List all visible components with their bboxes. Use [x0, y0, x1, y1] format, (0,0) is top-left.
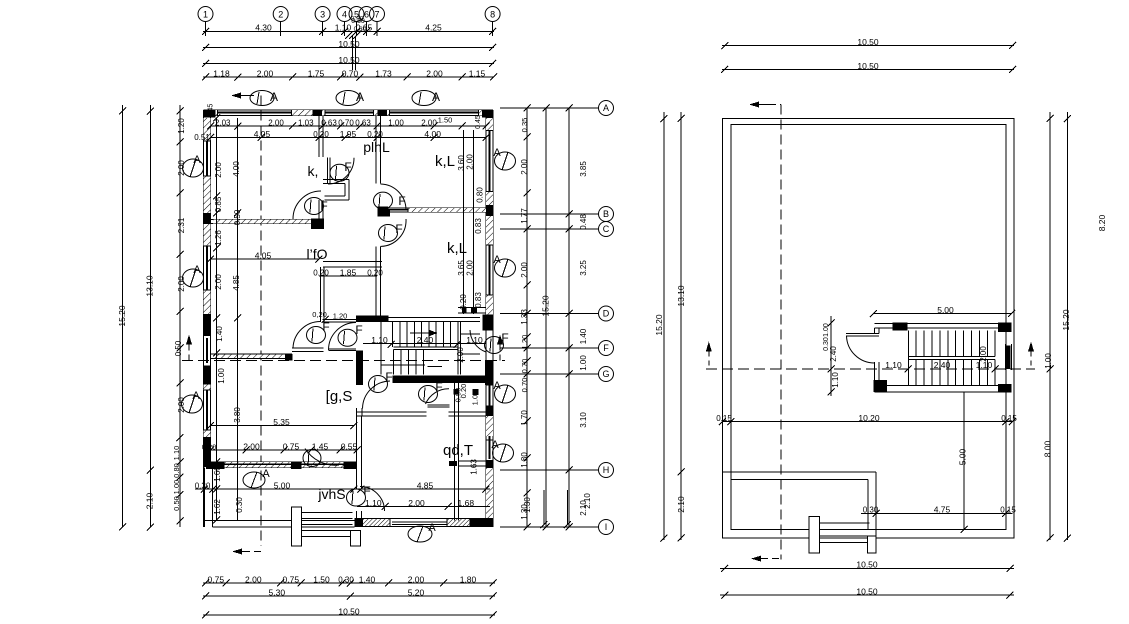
- svg-text:1.10: 1.10: [831, 372, 840, 388]
- svg-text:0.30: 0.30: [863, 506, 879, 515]
- svg-text:1.60: 1.60: [213, 466, 222, 482]
- svg-text:3.85: 3.85: [579, 161, 588, 177]
- svg-text:2.00: 2.00: [520, 262, 529, 278]
- svg-text:8.20: 8.20: [1097, 214, 1107, 231]
- window marker oval A veranda: [243, 472, 265, 488]
- window marker oval A bottom: [408, 526, 432, 542]
- dim line 0.30 5.00 4.85 y489: [195, 488, 490, 490]
- section arrow top left of plan: [231, 93, 241, 99]
- door tag F4: [379, 225, 398, 242]
- window marker oval A right 1: [495, 152, 516, 170]
- right plan stair treads lower flight: [908, 359, 995, 385]
- svg-text:1.18: 1.18: [213, 68, 230, 78]
- svg-text:2.00: 2.00: [408, 498, 425, 508]
- svg-text:0.90: 0.90: [454, 388, 463, 403]
- svg-text:0.75: 0.75: [283, 574, 300, 584]
- svg-text:4: 4: [342, 10, 347, 20]
- wall I horizontal y414 qd,T top: [357, 412, 427, 416]
- section arrow bottom left plan: [232, 549, 242, 555]
- svg-text:0.75: 0.75: [283, 441, 300, 451]
- left plan bottom exterior wall with hatching: [355, 519, 493, 527]
- svg-text:4.25: 4.25: [425, 23, 442, 33]
- right grid chain dim line x569: [568, 108, 570, 527]
- svg-text:2.10: 2.10: [583, 493, 592, 509]
- svg-text:1.73: 1.73: [375, 68, 392, 78]
- svg-text:4.00: 4.00: [232, 161, 241, 177]
- svg-text:F: F: [322, 320, 329, 334]
- svg-text:0.70: 0.70: [342, 68, 359, 78]
- right plan stair left stringer: [907, 331, 909, 386]
- svg-text:1.15: 1.15: [469, 68, 486, 78]
- left wall window glazing lines: [206, 141, 208, 430]
- svg-text:3.25: 3.25: [579, 260, 588, 276]
- svg-text:1.00: 1.00: [471, 391, 480, 406]
- right plan stair treads upper flight: [908, 331, 995, 357]
- bathroom bottom wall y264: [323, 261, 382, 266]
- svg-text:1: 1: [203, 10, 208, 20]
- svg-text:10.50: 10.50: [857, 37, 879, 47]
- svg-text:2.31: 2.31: [177, 217, 186, 233]
- svg-text:2.10: 2.10: [676, 496, 686, 513]
- svg-text:[g,S: [g,S: [326, 388, 353, 405]
- svg-text:2.40: 2.40: [934, 360, 951, 370]
- stair upper flight treads: [393, 321, 458, 347]
- stair inner dim line 1.10 2.40 1.10: [363, 342, 486, 344]
- right plan stair door leaf and arc: [846, 333, 879, 336]
- svg-text:0.20: 0.20: [367, 130, 383, 139]
- svg-text:0.83: 0.83: [474, 292, 483, 308]
- k room bottom wall y310 with window: [458, 308, 486, 314]
- svg-text:1.80: 1.80: [520, 452, 529, 468]
- left outer dim line 15.20: [122, 105, 124, 527]
- svg-text:1.10: 1.10: [976, 360, 993, 370]
- door arc G1: [293, 321, 321, 348]
- svg-text:3: 3: [320, 10, 325, 20]
- svg-text:0.45: 0.45: [475, 115, 482, 129]
- svg-text:0.30: 0.30: [338, 575, 354, 584]
- svg-text:1.63: 1.63: [470, 459, 479, 475]
- svg-text:1.50: 1.50: [438, 116, 453, 125]
- svg-text:10.50: 10.50: [338, 55, 360, 65]
- svg-text:0.20: 0.20: [313, 268, 329, 277]
- svg-text:2.00: 2.00: [214, 274, 223, 290]
- svg-text:1.40: 1.40: [215, 326, 224, 342]
- right plan section arrow bottom: [751, 556, 761, 562]
- svg-text:1.10: 1.10: [371, 335, 388, 345]
- wall H vertical x359 below stair: [356, 375, 363, 385]
- svg-text:5.30: 5.30: [269, 587, 286, 597]
- svg-text:A: A: [493, 254, 501, 266]
- svg-text:0,20: 0,20: [312, 310, 327, 319]
- svg-text:1.85: 1.85: [340, 267, 357, 277]
- stair bottom thick wall: [393, 375, 494, 383]
- right plan section dashed horizontal: [706, 368, 1035, 370]
- interior vertical dim line x237: [237, 118, 239, 520]
- stair landing wall thin continuation: [389, 318, 480, 322]
- stair mid landing lines: [393, 347, 458, 349]
- svg-text:2.00: 2.00: [466, 154, 475, 170]
- section arrow left end: [186, 335, 192, 345]
- svg-text:H: H: [603, 465, 610, 475]
- interior dim line y137: [211, 137, 487, 139]
- right plan bottom dim 10.50 row 2: [720, 594, 1014, 596]
- svg-text:A: A: [356, 90, 364, 104]
- wall H segment below door D7: [356, 408, 362, 416]
- wall W5 vertical x322: [321, 267, 325, 322]
- svg-text:1.00: 1.00: [823, 323, 830, 337]
- svg-text:4.00: 4.00: [424, 129, 441, 139]
- svg-text:A: A: [428, 522, 436, 534]
- door D1 leaf and arc plhL to room k: [327, 158, 330, 184]
- top dim row 2 total 10.50: [203, 47, 494, 49]
- svg-text:10.50: 10.50: [338, 606, 360, 616]
- svg-text:A: A: [493, 380, 501, 392]
- right plan terrace outline lower left: [722, 472, 876, 480]
- svg-text:15.20: 15.20: [654, 314, 664, 336]
- svg-text:2.00: 2.00: [268, 118, 284, 127]
- svg-text:0.70: 0.70: [520, 378, 529, 393]
- svg-text:1.68: 1.68: [458, 498, 475, 508]
- right plan vertical dim 5.00: [963, 392, 965, 529]
- svg-text:A: A: [603, 103, 609, 113]
- svg-text:0.35: 0.35: [520, 118, 529, 133]
- svg-text:2.40: 2.40: [829, 346, 838, 362]
- bottom dim chain row: [203, 582, 495, 584]
- veranda boundary bottom left: [205, 468, 355, 528]
- door tag F3: [374, 192, 393, 209]
- window marker oval A left 1: [183, 159, 204, 177]
- svg-text:15.20: 15.20: [1061, 309, 1071, 331]
- svg-text:10.20: 10.20: [858, 413, 880, 423]
- svg-text:0.50: 0.50: [174, 340, 183, 356]
- svg-text:0.20: 0.20: [313, 130, 329, 139]
- right plan terrace inner lines: [730, 480, 732, 530]
- svg-text:A: A: [193, 154, 201, 166]
- right plan inner wall rectangle: [731, 124, 1006, 529]
- svg-text:0.63: 0.63: [355, 118, 371, 127]
- section arrow right end: [497, 335, 503, 345]
- closet box in bathroom: [323, 180, 349, 201]
- svg-text:10.50: 10.50: [857, 61, 879, 71]
- left chain dim line x180: [179, 105, 181, 527]
- small black square right strip: [472, 389, 478, 395]
- svg-text:8.00: 8.00: [1043, 440, 1053, 457]
- black block at W4/W2 junction: [378, 210, 390, 217]
- right plan dim 5.00 above stair: [873, 313, 1011, 315]
- svg-text:2.00: 2.00: [421, 118, 437, 127]
- stair lower flight treads: [393, 350, 423, 375]
- svg-text:1.45: 1.45: [312, 441, 329, 451]
- wall K vertical x456 qd,T right: [454, 383, 458, 521]
- svg-text:A: A: [192, 390, 200, 402]
- left plan left exterior wall: [204, 110, 211, 527]
- svg-text:A: A: [262, 468, 270, 480]
- svg-text:0.63: 0.63: [321, 118, 337, 127]
- svg-text:13.10: 13.10: [145, 275, 155, 297]
- wall J window glazing: [225, 463, 291, 465]
- svg-text:k,: k,: [308, 163, 319, 179]
- left wall hatch pieces: [204, 118, 211, 141]
- svg-text:2.00: 2.00: [426, 68, 443, 78]
- svg-text:0.20: 0.20: [459, 294, 468, 310]
- svg-text:0.51: 0.51: [194, 133, 210, 142]
- svg-text:2.00: 2.00: [243, 441, 260, 451]
- svg-text:2.00: 2.00: [520, 159, 529, 175]
- svg-text:0.50: 0.50: [172, 496, 181, 511]
- double door leafs at [g,S entry: [292, 348, 356, 352]
- wall W3 lower segment: [319, 200, 323, 219]
- svg-text:8: 8: [490, 10, 495, 20]
- svg-text:0.55: 0.55: [341, 441, 358, 451]
- window marker oval A right 4: [493, 444, 514, 462]
- stair direction arrow: [410, 332, 429, 334]
- svg-text:1.26: 1.26: [214, 230, 223, 246]
- svg-text:1.33: 1.33: [520, 309, 529, 325]
- svg-text:1.30: 1.30: [523, 497, 532, 513]
- svg-text:0.50: 0.50: [233, 209, 242, 225]
- door D7 arc from stair hall down: [363, 381, 391, 409]
- svg-text:1.10: 1.10: [172, 446, 181, 461]
- right plan section arrow left: [706, 342, 712, 352]
- right plan left dim line 15.20: [663, 112, 665, 540]
- svg-text:2.10: 2.10: [145, 492, 155, 509]
- wall J hatch pieces: [225, 462, 291, 467]
- svg-text:F: F: [398, 194, 405, 208]
- right plan section dashed vertical: [780, 105, 782, 560]
- svg-text:2.00: 2.00: [257, 68, 274, 78]
- interior wall W3 vertical x321 upper: [319, 116, 323, 158]
- top wall window glazing lines: [218, 112, 292, 114]
- svg-text:0.85: 0.85: [214, 196, 223, 212]
- dim line 5.35 y426: [211, 425, 355, 427]
- svg-text:D: D: [603, 309, 610, 319]
- svg-text:4.85: 4.85: [417, 480, 434, 490]
- wall W4 lower segment: [376, 246, 381, 316]
- right plan dim 0.30 4.75 0.15 row: [861, 512, 1012, 514]
- svg-text:2.00: 2.00: [466, 260, 475, 276]
- wall J horizontal y465 bottom of [g,S: [211, 462, 358, 467]
- svg-text:1.00: 1.00: [388, 118, 404, 127]
- svg-text:1.10: 1.10: [885, 360, 902, 370]
- svg-text:5.35: 5.35: [273, 417, 290, 427]
- right wall hatch pieces: [486, 118, 493, 131]
- svg-text:3.80: 3.80: [233, 407, 242, 423]
- WC top wall y320 with dims 0.20 1.20: [322, 320, 356, 323]
- door D4 arc: [381, 219, 407, 246]
- svg-text:4.75: 4.75: [934, 505, 951, 515]
- right plan stair left wall with door opening: [875, 328, 879, 334]
- bottom right short dim lines of left plan: [543, 490, 545, 525]
- svg-text:1.20: 1.20: [177, 118, 186, 134]
- svg-text:0.45: 0.45: [208, 104, 215, 118]
- svg-text:1.00: 1.00: [579, 355, 588, 371]
- right plan outer wall rectangle: [722, 119, 1014, 539]
- stair top wall black bar: [356, 316, 389, 323]
- dim row 0.20 1.85 0.20 y272: [319, 275, 377, 277]
- right plan stair mid landing: [908, 357, 995, 360]
- svg-text:jvhS: jvhS: [317, 486, 345, 502]
- door tag F6: [338, 329, 357, 346]
- interior wall W4 vertical x378 upper: [376, 116, 381, 184]
- right plan section arrow top: [749, 102, 759, 108]
- svg-text:2.03: 2.03: [215, 118, 231, 127]
- svg-text:F: F: [501, 331, 508, 345]
- svg-text:0.75: 0.75: [208, 574, 225, 584]
- svg-text:0.20: 0.20: [202, 442, 217, 451]
- svg-text:13.10: 13.10: [676, 285, 686, 307]
- door tag F5: [307, 327, 326, 344]
- door tag F2: [330, 164, 349, 181]
- grid line stubs crossing dim rows: [353, 36, 356, 70]
- door tag F7: [369, 376, 388, 393]
- right plan stair left small dim chain: [830, 316, 832, 396]
- svg-text:1.40: 1.40: [579, 328, 588, 344]
- left plan right exterior wall: [486, 110, 493, 527]
- svg-text:0.15: 0.15: [1001, 414, 1017, 423]
- svg-text:10.50: 10.50: [856, 560, 878, 570]
- svg-text:1.20: 1.20: [333, 312, 348, 321]
- svg-text:2.40: 2.40: [417, 335, 434, 345]
- svg-text:1.03: 1.03: [298, 118, 314, 127]
- right plan dim 10.20 row: [722, 421, 1012, 423]
- svg-text:5.00: 5.00: [958, 448, 968, 465]
- svg-text:0.30: 0.30: [235, 497, 244, 513]
- svg-text:A: A: [432, 90, 440, 104]
- right plan stair enclosure top wall: [875, 324, 1012, 328]
- wall H lower vertical to veranda: [357, 416, 362, 489]
- svg-text:1.62: 1.62: [213, 499, 222, 515]
- svg-text:4.05: 4.05: [254, 129, 271, 139]
- right side grid leader lines: [500, 107, 598, 109]
- small line below dashed at stair: [428, 365, 443, 367]
- svg-text:0.15: 0.15: [716, 414, 732, 423]
- svg-text:0.70: 0.70: [520, 359, 529, 374]
- svg-text:1.75: 1.75: [308, 68, 325, 78]
- porch steps bottom left plan: [292, 507, 302, 546]
- interior wall W1 horizontal y220: [211, 219, 324, 223]
- window marker oval A left 3: [182, 395, 203, 413]
- dim row 1.10 2.00 1.68 y503: [357, 506, 490, 508]
- svg-text:1.77: 1.77: [520, 208, 529, 224]
- door tag F9: [303, 450, 321, 467]
- svg-text:0.20: 0.20: [367, 268, 383, 277]
- svg-text:F: F: [320, 199, 327, 213]
- svg-text:7: 7: [374, 10, 379, 20]
- svg-text:1.00: 1.00: [172, 480, 181, 495]
- door tag F8: [419, 386, 438, 403]
- right chain dim line x527: [526, 108, 528, 527]
- right plan stair enclosure bottom wall: [875, 385, 1012, 392]
- svg-text:1.80: 1.80: [460, 574, 477, 584]
- dim row 2.00 0.75 1.45 0.55 y450: [211, 449, 358, 451]
- grid bubbles A-I right side: [599, 101, 614, 116]
- bottom dim row 5.30 5.20: [203, 595, 495, 597]
- top dim row 4 chain 1.18 2.00 1.75 0.70 1.73 2.00 1.15: [203, 76, 494, 78]
- right plan top dim line 10.50 lower: [722, 68, 1014, 70]
- door D10 jvhS arc: [360, 487, 385, 512]
- svg-text:F: F: [603, 343, 609, 353]
- right wall window glazing lines: [489, 131, 491, 459]
- door arc G2: [329, 323, 357, 351]
- svg-text:F: F: [355, 323, 362, 337]
- svg-text:0.80: 0.80: [476, 187, 485, 203]
- stair landing right area lines: [460, 334, 480, 354]
- stair well left edge: [380, 321, 382, 374]
- svg-text:0.15: 0.15: [1000, 506, 1016, 515]
- svg-text:C: C: [603, 224, 610, 234]
- interior vertical dim line x216: [216, 118, 218, 520]
- door D9 arc in wall J: [305, 449, 339, 466]
- svg-text:1.50: 1.50: [313, 574, 330, 584]
- svg-text:5.00: 5.00: [937, 305, 954, 315]
- top dim row 1 values 4.30 1.10 0.65 4.25: [203, 31, 494, 33]
- top wall hatch pieces: [215, 110, 217, 116]
- right plan right dim line A 1.00 8.00: [1049, 112, 1051, 540]
- svg-text:15.20: 15.20: [117, 305, 127, 327]
- svg-text:1.40: 1.40: [359, 574, 376, 584]
- svg-text:4.30: 4.30: [255, 23, 272, 33]
- svg-text:3.10: 3.10: [579, 412, 588, 428]
- svg-text:I: I: [605, 522, 608, 532]
- hall wall G left of stair doors: [211, 354, 293, 359]
- svg-text:0.70: 0.70: [338, 118, 354, 127]
- small wall y463 right strip: [458, 461, 486, 466]
- svg-text:1.20: 1.20: [520, 335, 529, 350]
- svg-text:10.50: 10.50: [338, 39, 360, 49]
- svg-text:4.05: 4.05: [255, 251, 272, 261]
- dim line 4.05 y259: [211, 258, 320, 260]
- stair left thick wall x360: [356, 350, 363, 385]
- rotated dims right interior column x463 x474: [463, 130, 465, 314]
- right plan dims on section line 1.10 2.40 1.10: [905, 365, 912, 372]
- svg-text:1.10: 1.10: [365, 498, 382, 508]
- door tag F11 right wall: [485, 337, 504, 354]
- grid bubbles 1-8 top of left plan: [198, 7, 213, 22]
- svg-text:F: F: [435, 380, 442, 394]
- svg-text:1.95: 1.95: [340, 129, 357, 139]
- window marker oval A right 3: [495, 385, 516, 403]
- svg-text:k,L: k,L: [435, 153, 455, 170]
- wall H stub at bottom wall: [357, 511, 362, 521]
- left outer dim line 13.10 / 2.10: [149, 105, 151, 527]
- right plan bottom dim 10.50 row 1: [720, 567, 1014, 569]
- svg-text:1.00: 1.00: [217, 368, 226, 384]
- svg-text:10.50: 10.50: [856, 587, 878, 597]
- interior dim chain below top wall: [211, 125, 487, 127]
- right plan section arrow right: [1028, 342, 1034, 352]
- window marker oval A left 2: [183, 269, 204, 287]
- svg-text:4.85: 4.85: [232, 275, 241, 291]
- right plan top dim line 10.50 upper: [722, 45, 1014, 47]
- right plan stair window right side: [1006, 346, 1010, 369]
- svg-text:1.00: 1.00: [1044, 353, 1053, 369]
- svg-text:G: G: [602, 369, 609, 379]
- right plan left dim line 13.10 2.10: [680, 112, 682, 540]
- svg-text:A: A: [193, 264, 201, 276]
- svg-text:0.48: 0.48: [579, 214, 588, 230]
- right plan right dim line B 15.20 8.20: [1066, 112, 1068, 540]
- svg-text:F: F: [344, 160, 351, 174]
- svg-text:5.00: 5.00: [274, 480, 291, 490]
- door tag F10: [347, 489, 366, 506]
- left plan top exterior wall: [204, 110, 494, 116]
- svg-text:2.00: 2.00: [245, 574, 262, 584]
- section dashed line horizontal through left plan: [182, 359, 505, 361]
- door D8 leaf and arc: [428, 405, 450, 407]
- svg-text:A: A: [493, 147, 501, 159]
- svg-text:qd,T: qd,T: [443, 442, 473, 459]
- door tag F1: [305, 198, 324, 215]
